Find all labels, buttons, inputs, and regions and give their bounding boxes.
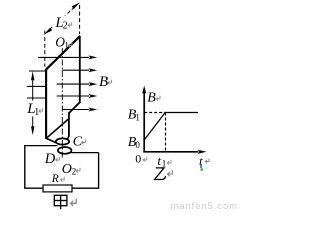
svg-text:0: 0 <box>135 140 140 150</box>
svg-text:1: 1 <box>162 159 167 169</box>
svg-text:C: C <box>73 135 83 150</box>
svg-text:0: 0 <box>135 152 141 166</box>
svg-text:B: B <box>99 74 108 90</box>
svg-text:D: D <box>44 151 56 167</box>
svg-text:1: 1 <box>135 112 140 122</box>
svg-text:B: B <box>147 91 156 106</box>
svg-text:manfen5.com: manfen5.com <box>171 201 238 210</box>
svg-text:2: 2 <box>63 21 68 32</box>
svg-text:1: 1 <box>34 107 39 118</box>
svg-text:R: R <box>51 173 59 185</box>
svg-text:2: 2 <box>72 166 77 176</box>
svg-text:t: t <box>157 153 161 168</box>
svg-text:1: 1 <box>64 42 69 52</box>
svg-text:O: O <box>62 162 72 177</box>
